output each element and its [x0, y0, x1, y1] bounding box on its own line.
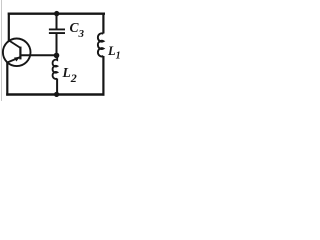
wire emitter lead: [6, 62, 8, 95]
inductor L1: [98, 33, 104, 56]
label C3: [70, 20, 85, 40]
wire right lower: [102, 56, 104, 96]
transistor emitter stroke: [7, 57, 20, 63]
inductor L2 lead lower: [56, 79, 58, 95]
label L1: [108, 44, 121, 62]
transistor Q1: [3, 39, 31, 67]
transistor base bar: [19, 47, 21, 60]
wire bottom: [6, 93, 104, 95]
capacitor C3: [49, 28, 65, 30]
wire base: [20, 54, 56, 56]
scan edge artifact: [1, 0, 3, 101]
node top junction: [54, 11, 59, 16]
label L2: [63, 65, 77, 86]
wire collector lead: [8, 13, 10, 41]
wire top: [8, 12, 105, 14]
wire right upper: [102, 13, 104, 34]
node base junction: [54, 53, 60, 59]
capacitor C3 lead upper: [56, 14, 58, 30]
inductor L2: [53, 56, 58, 79]
capacitor C3 lead lower: [56, 33, 58, 55]
transistor emitter arrow (PNP): [14, 57, 20, 62]
transistor collector stroke: [9, 40, 21, 48]
node bottom junction: [54, 92, 59, 97]
